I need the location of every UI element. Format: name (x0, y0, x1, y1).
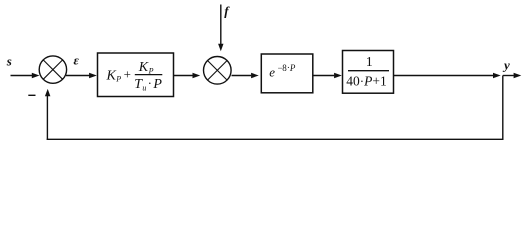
svg-text:+: + (124, 67, 131, 82)
minus sign (28, 94, 35, 96)
wire f into S2 (220, 5, 222, 45)
svg-text:e: e (269, 64, 275, 79)
feedback wire bottom (47, 138, 504, 140)
summing junction S1 (39, 56, 66, 83)
wire S2 to block W2 (232, 75, 252, 77)
svg-text:y: y (502, 58, 510, 73)
svg-text:P: P (115, 75, 121, 84)
svg-text:K: K (138, 60, 149, 75)
wire W2 to block W3 (313, 75, 334, 77)
W1 formula Kp + Kp/(Tu P) (106, 60, 163, 92)
W2 formula e^-8P (269, 62, 296, 79)
wire W1 to summer S2 (174, 75, 193, 77)
block W2 transport delay (261, 54, 313, 93)
feedback wire up into S1 (46, 96, 48, 140)
svg-text:P: P (289, 63, 296, 73)
W3 formula 1/(40P+1) (346, 55, 389, 88)
svg-text:u: u (142, 83, 146, 92)
wire S1 to block W1 (66, 75, 90, 77)
wire output arrow (503, 75, 514, 77)
svg-text:40·P+1: 40·P+1 (346, 73, 386, 88)
svg-text:1: 1 (366, 55, 373, 70)
svg-text:ε: ε (74, 52, 80, 67)
wire input to summer S1 (11, 75, 33, 77)
block W1 PI controller (98, 53, 174, 97)
block W3 first order lag (343, 51, 394, 94)
summing junction S2 (204, 57, 232, 85)
svg-text:P: P (152, 77, 162, 92)
svg-text:·: · (148, 76, 152, 91)
svg-text:s: s (6, 53, 12, 68)
feedback wire down from node (502, 76, 504, 140)
wire W3 to output node (394, 75, 494, 77)
svg-text:K: K (106, 68, 117, 83)
